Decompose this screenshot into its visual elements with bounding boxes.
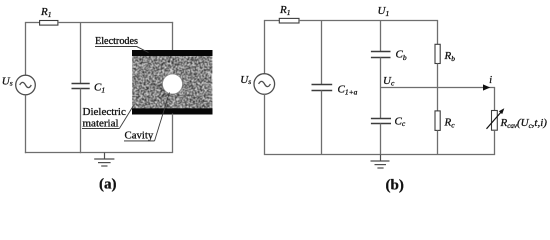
wire: U_c horizontal wire to the right with current arrow (381, 87, 496, 89)
svg-text:Uc: Uc (383, 75, 395, 88)
capacitor C_1+a (312, 85, 333, 91)
wire: top wire right of R1 (a) (58, 22, 173, 24)
capacitor C1 (a) (72, 84, 90, 89)
wire: drop from top wire into sample top electrode (a) (172, 22, 174, 51)
svg-text:C1+a: C1+a (338, 83, 358, 96)
svg-text:Cb: Cb (396, 48, 407, 62)
wire: from C_c down to bottom wire (380, 124, 382, 155)
wire: C1 branch upper (a) (80, 23, 82, 84)
wire: top wire left of R1 (a) (25, 22, 40, 24)
wire: bottom wire (b) (264, 154, 495, 156)
wire: from R_cav down to bottom wire (494, 130, 496, 154)
capacitor C_b (371, 52, 391, 58)
wire: from C_b down to U_c node (380, 58, 382, 119)
svg-text:i: i (489, 75, 492, 86)
wire: bottom wire (a) (25, 152, 173, 154)
svg-text:Rcav(Uc,t,i): Rcav(Uc,t,i) (500, 117, 548, 130)
svg-text:U1: U1 (378, 5, 390, 18)
wire: left rail upper segment (a) (25, 23, 27, 76)
resistor R1 (a) (40, 21, 58, 26)
svg-text:R1: R1 (279, 4, 290, 17)
electrode: bottom bar (132, 108, 213, 114)
svg-text:(b): (b) (386, 177, 404, 193)
arrow through R_cav (487, 108, 505, 129)
wire: R_b branch from top-wire corner down to R_b (437, 21, 439, 45)
resistor R1 (b) (279, 18, 299, 23)
wire: C1 branch lower (a) (80, 89, 82, 154)
cavity: white circle (163, 74, 183, 94)
wire: C_1+a branch lower (b) (321, 91, 323, 155)
svg-text:Rb: Rb (444, 50, 456, 63)
dielectric sample: stippled dielectric body (132, 54, 213, 109)
ground (b) (371, 155, 390, 169)
wire: from R_c down to bottom wire (437, 130, 439, 154)
svg-text:Us: Us (240, 74, 251, 86)
svg-text:material: material (83, 118, 119, 130)
arrowhead: current i (483, 84, 490, 90)
resistor R_cav (variable, nonlinear) (492, 111, 498, 131)
wire: top wire left of R1 (b) (264, 20, 280, 22)
wire: U1 branch from top wire to C_b (380, 21, 382, 52)
wire: right rail from U_c wire corner down to R_cav (494, 88, 496, 111)
electrode: top bar (132, 50, 213, 56)
resistor R_b (435, 44, 440, 63)
wire: between R_b and R_c crossing U_c wire (437, 64, 439, 111)
wire: left rail lower segment (b) (264, 94, 266, 155)
wire: left rail upper segment (b) (264, 21, 266, 75)
source U_s (b): AC source circle with sine (254, 74, 275, 95)
svg-text:R1: R1 (40, 6, 51, 19)
svg-text:(a): (a) (99, 177, 117, 193)
capacitor C_c (371, 119, 391, 124)
wire: C_1+a branch upper (b) (321, 21, 323, 85)
svg-text:Us: Us (2, 76, 13, 88)
ground (a) (94, 153, 114, 167)
resistor R_c (435, 111, 440, 130)
wire: left rail lower segment (a) (25, 95, 27, 153)
svg-text:Electrodes: Electrodes (95, 36, 138, 47)
svg-text:Rc: Rc (444, 116, 456, 129)
svg-text:C1: C1 (94, 82, 105, 95)
wire: from sample bottom electrode down (a) (172, 114, 174, 153)
svg-text:Cc: Cc (395, 115, 406, 128)
source U_s (a): AC source circle with sine (16, 75, 36, 95)
svg-text:Dielectric: Dielectric (83, 106, 126, 118)
wire: top wire right of R1 (b) (299, 20, 438, 22)
svg-text:Cavity: Cavity (125, 130, 154, 142)
